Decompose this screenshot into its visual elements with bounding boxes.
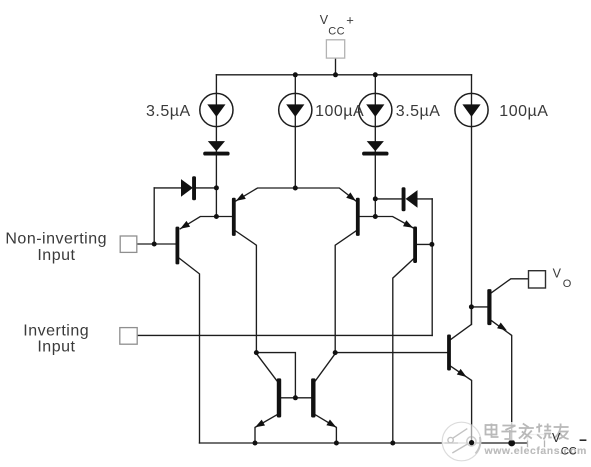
svg-text:Input: Input: [37, 247, 75, 264]
svg-text:3.5µA: 3.5µA: [396, 103, 441, 120]
svg-text:3.5µA: 3.5µA: [146, 103, 191, 120]
svg-text:CC: CC: [561, 445, 577, 457]
svg-text:V: V: [552, 431, 561, 445]
svg-text:O: O: [563, 278, 572, 290]
svg-text:Non-inverting: Non-inverting: [5, 231, 107, 248]
svg-text:100µA: 100µA: [499, 103, 548, 120]
svg-text:V: V: [553, 267, 562, 281]
svg-text:CC: CC: [328, 25, 345, 37]
svg-text:100µA: 100µA: [315, 103, 364, 120]
svg-text:Inverting: Inverting: [23, 322, 89, 339]
svg-text:Input: Input: [37, 338, 75, 355]
svg-text:+: +: [346, 13, 354, 28]
